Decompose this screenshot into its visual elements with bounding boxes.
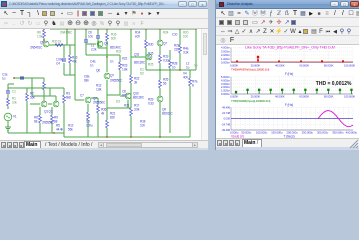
svg-text:2N5550C: 2N5550C (93, 101, 106, 105)
svg-text:BD139C: BD139C (133, 96, 145, 100)
svg-text:250.000u: 250.000u (302, 130, 314, 134)
svg-text:Q11: Q11 (134, 53, 140, 57)
svg-text:Q7: Q7 (110, 74, 114, 78)
svg-text:100: 100 (183, 35, 188, 39)
svg-text:10k: 10k (12, 101, 17, 105)
svg-text:100: 100 (140, 124, 145, 128)
svg-text:3k: 3k (134, 81, 138, 85)
svg-text:60.000K: 60.000K (299, 63, 309, 67)
svg-text:R24: R24 (163, 31, 169, 35)
svg-text:R30: R30 (148, 43, 154, 47)
svg-text:BD911C: BD911C (162, 112, 174, 116)
svg-text:1u: 1u (2, 77, 6, 81)
svg-text:100.000K: 100.000K (344, 95, 355, 99)
svg-text:56k: 56k (68, 128, 73, 132)
svg-text:C10: C10 (172, 33, 178, 37)
svg-text:100.000u: 100.000u (256, 130, 268, 134)
svg-text:100u: 100u (86, 124, 93, 128)
svg-text:1.8k: 1.8k (122, 68, 128, 72)
svg-text:20.000K: 20.000K (251, 63, 261, 67)
svg-text:820: 820 (110, 116, 115, 120)
svg-text:K22: K22 (122, 57, 127, 61)
svg-text:1n: 1n (110, 60, 114, 64)
svg-text:C7: C7 (80, 94, 84, 98)
svg-text:C1: C1 (12, 90, 16, 94)
svg-text:D2: D2 (140, 72, 144, 76)
svg-text:2N5550C: 2N5550C (110, 79, 123, 83)
svg-text:80.000K: 80.000K (324, 95, 334, 99)
svg-text:Q3: Q3 (104, 42, 108, 46)
svg-text:1.5k: 1.5k (37, 35, 43, 39)
svg-text:2N4148C: 2N4148C (60, 31, 73, 35)
svg-text:C4: C4 (56, 62, 60, 66)
svg-text:D3: D3 (116, 100, 120, 104)
svg-text:Q5: Q5 (40, 41, 44, 45)
svg-text:1n: 1n (90, 64, 94, 68)
svg-text:0.000: 0.000 (224, 117, 231, 121)
svg-text:R31: R31 (124, 104, 130, 108)
svg-text:THD = 0,0012%: THD = 0,0012% (316, 81, 352, 87)
svg-text:Q1 Q2: Q1 Q2 (44, 110, 53, 114)
svg-text:68p: 68p (122, 94, 127, 98)
svg-text:1u: 1u (186, 66, 190, 70)
svg-text:68n: 68n (84, 79, 89, 83)
svg-text:150.000u: 150.000u (271, 130, 283, 134)
svg-text:THDWAVE%(V(out),10000,1N): THDWAVE%(V(out),10000,1N) (231, 68, 269, 72)
svg-text:100.000K: 100.000K (344, 63, 355, 67)
svg-text:24.748: 24.748 (222, 111, 230, 115)
svg-text:4k: 4k (101, 112, 105, 116)
svg-text:8: 8 (192, 84, 194, 88)
svg-text:56k: 56k (30, 96, 35, 100)
svg-text:1.8k: 1.8k (96, 88, 102, 92)
svg-text:Like Sony TA-F3D_B5p-PoAB,PF_D: Like Sony TA-F3D_B5p-PoAB,PF_DN+_Only TH… (245, 45, 335, 50)
svg-text:0.000K: 0.000K (230, 63, 238, 67)
svg-text:R10: R10 (52, 40, 58, 44)
svg-text:e00: e00 (135, 35, 140, 39)
svg-text:600: 600 (111, 37, 116, 41)
svg-text:Q7: Q7 (163, 42, 167, 46)
svg-text:10n: 10n (88, 35, 93, 39)
svg-text:2.2k: 2.2k (91, 48, 97, 52)
svg-text:3.3k: 3.3k (183, 51, 189, 55)
svg-text:80.000K: 80.000K (324, 63, 334, 67)
svg-text:1k: 1k (58, 40, 62, 44)
svg-text:40.000K: 40.000K (275, 95, 285, 99)
svg-text:Vo: Vo (194, 64, 198, 68)
svg-text:F (Hz): F (Hz) (285, 103, 293, 107)
svg-text:68: 68 (34, 120, 38, 124)
svg-text:49.496: 49.496 (222, 105, 230, 109)
svg-text:-24.748: -24.748 (221, 122, 230, 126)
svg-text:60.000K: 60.000K (299, 95, 309, 99)
svg-text:47k: 47k (72, 60, 77, 64)
svg-text:R25: R25 (148, 63, 154, 67)
svg-text:F (Hz): F (Hz) (285, 72, 293, 76)
svg-text:R22: R22 (116, 50, 122, 54)
svg-text:350.000u: 350.000u (332, 130, 344, 134)
svg-text:40.000K: 40.000K (275, 63, 285, 67)
svg-text:BD139C: BD139C (134, 61, 146, 65)
svg-text:220: 220 (174, 48, 179, 52)
svg-text:2N5401C: 2N5401C (30, 46, 43, 50)
svg-text:10: 10 (172, 66, 176, 70)
svg-text:3.9k: 3.9k (134, 108, 140, 112)
svg-text:0.33: 0.33 (148, 102, 154, 106)
svg-text:44.4k: 44.4k (56, 128, 63, 132)
svg-text:V1: V1 (13, 115, 17, 119)
svg-text:6k8: 6k8 (66, 96, 71, 100)
svg-text:300.000u: 300.000u (317, 130, 329, 134)
svg-text:0.33: 0.33 (163, 59, 169, 63)
svg-text:56: 56 (163, 82, 167, 86)
svg-text:400.000u: 400.000u (346, 130, 358, 134)
svg-text:THD(HARM(V(out)),100000,1N): THD(HARM(V(out)),100000,1N) (231, 99, 270, 103)
svg-text:Q6: Q6 (96, 69, 100, 73)
